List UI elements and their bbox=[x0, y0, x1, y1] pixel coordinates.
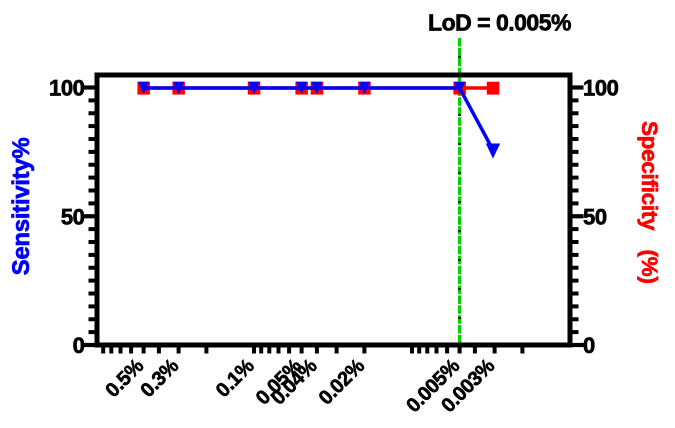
svg-text:Specificity: Specificity bbox=[637, 121, 662, 231]
sensitivity series (blue) line bbox=[144, 88, 493, 150]
right y-axis minor ticks bbox=[572, 100, 579, 332]
LoD line dark dash overlay bbox=[458, 42, 461, 344]
left y-axis major ticks (0,50,100) bbox=[84, 88, 96, 346]
plot frame bbox=[97, 75, 570, 345]
svg-text:Sensitivity%: Sensitivity% bbox=[8, 138, 35, 276]
left y-axis minor ticks bbox=[89, 100, 96, 332]
svg-text:(%): (%) bbox=[637, 249, 662, 283]
svg-text:100: 100 bbox=[583, 76, 619, 101]
right y tick labels bbox=[583, 76, 619, 359]
LoD marker line (green dashed vertical) bbox=[458, 38, 461, 344]
x tick labels (rotated 45deg) bbox=[101, 355, 499, 417]
svg-text:50: 50 bbox=[61, 204, 85, 229]
left y tick labels bbox=[49, 76, 85, 359]
sensitivity triangle markers bbox=[138, 82, 500, 159]
svg-text:0: 0 bbox=[583, 333, 595, 358]
specificity series (red) line bbox=[144, 86, 493, 90]
svg-text:0: 0 bbox=[73, 333, 85, 358]
specificity square markers bbox=[137, 82, 499, 95]
bottom x-axis log ticks bbox=[103, 347, 522, 354]
svg-text:100: 100 bbox=[49, 76, 85, 101]
svg-text:LoD = 0.005%: LoD = 0.005% bbox=[428, 10, 571, 36]
svg-text:50: 50 bbox=[583, 204, 607, 229]
right y-axis major ticks (0,50,100) bbox=[572, 88, 584, 346]
